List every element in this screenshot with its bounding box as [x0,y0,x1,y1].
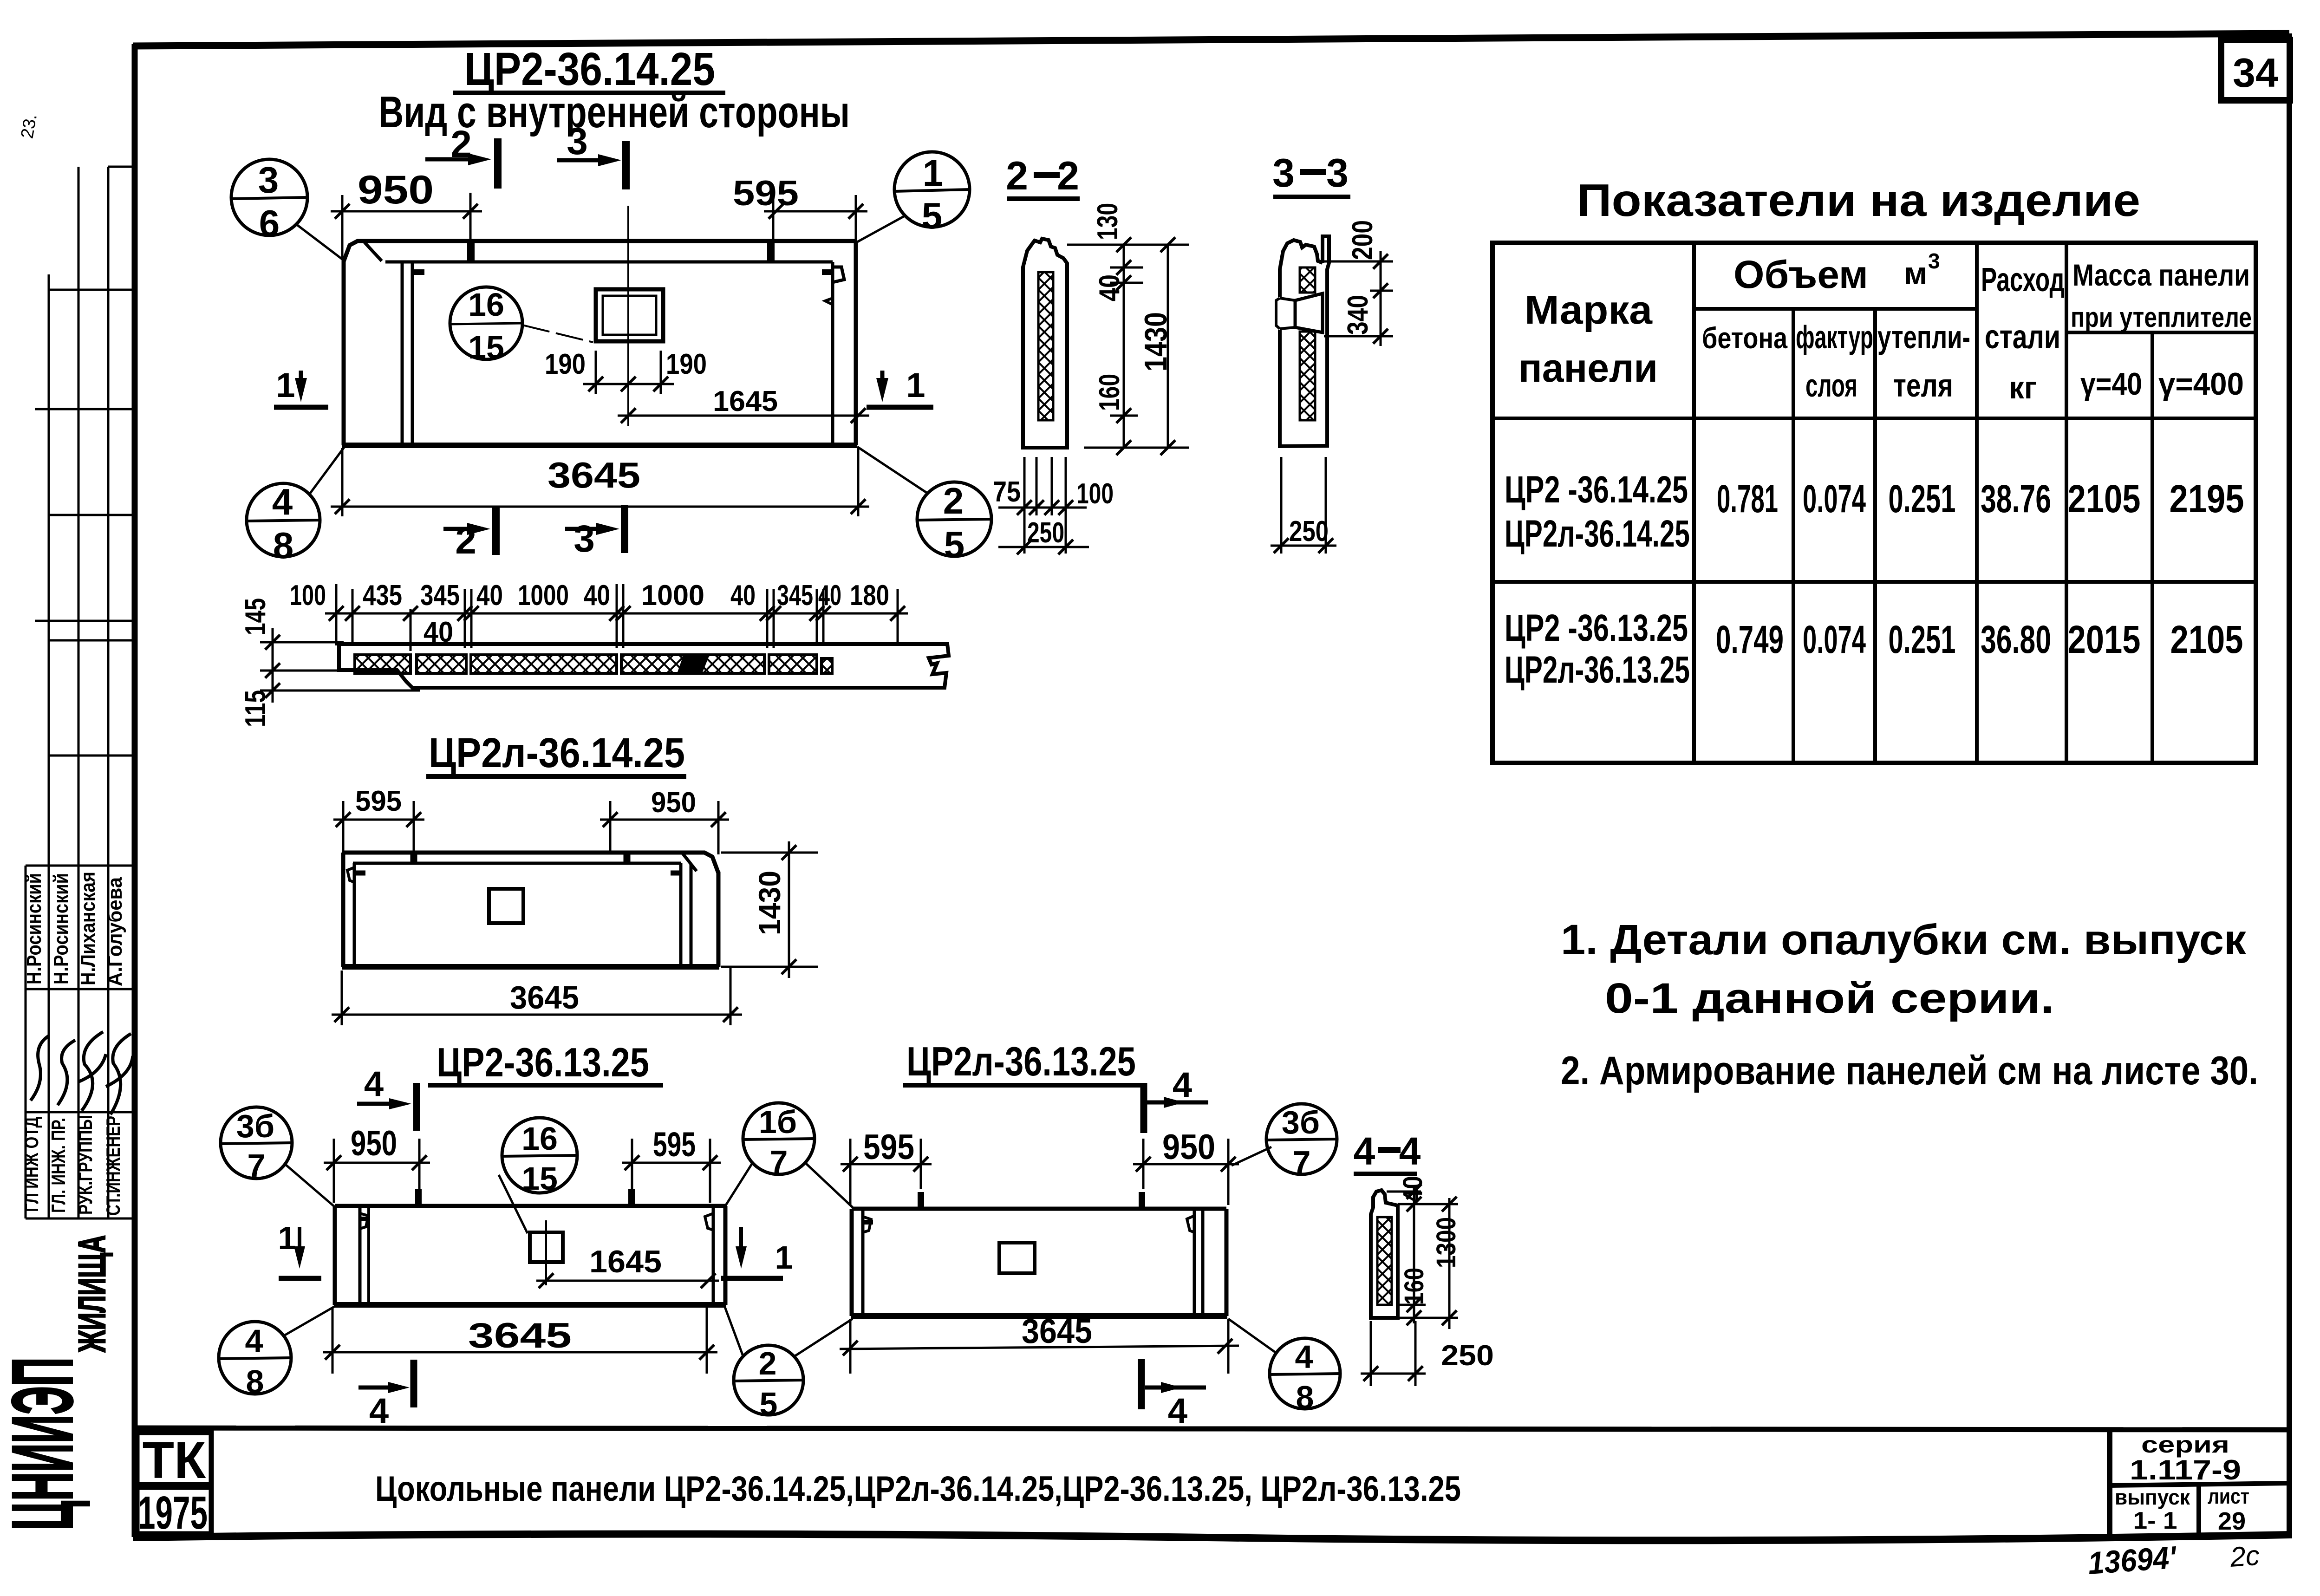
svg-text:3: 3 [567,120,588,163]
svg-text:3: 3 [1928,249,1940,273]
section cut mark 3 bottom [565,505,625,560]
svg-text:РУК.ГРУППЫ: РУК.ГРУППЫ [74,1115,96,1215]
section 2-2 profile [1023,239,1067,448]
svg-text:0.251: 0.251 [1889,477,1956,521]
svg-text:2. Армирование панелей см на л: 2. Армирование панелей см на листе 30. [1561,1049,2258,1093]
svg-text:7: 7 [1293,1144,1311,1180]
marker circle 2/5 bottom center [724,1306,853,1415]
svg-text:Марка: Марка [1525,288,1653,332]
panel3 section mark 1 left [278,1220,321,1278]
svg-text:ЦР2 -36.13.25: ЦР2 -36.13.25 [1505,607,1688,649]
svg-text:ЦР2-36.13.25: ЦР2-36.13.25 [437,1039,649,1085]
section 2-2 bottom dims [998,457,1089,554]
panel3 section mark 4 bottom [358,1360,414,1431]
panel3 opening [530,1232,563,1262]
section 3-3 title [1272,151,1350,197]
svg-text:1300: 1300 [1431,1217,1461,1268]
svg-text:1б: 1б [759,1104,797,1140]
svg-text:345: 345 [777,580,813,612]
panel2 opening [489,889,523,923]
table header uteplitela [1877,319,1970,404]
marker circle 16/15 [450,287,593,359]
section mark 1 left [274,366,328,407]
panel2 right end rib [671,863,691,965]
stamp signatures [31,1032,133,1114]
table header massa paneli [2071,258,2252,402]
marker circle 4/8 bottom left [219,1306,336,1394]
svg-text:3645: 3645 [510,979,579,1016]
svg-text:3б: 3б [1282,1104,1320,1140]
1975 box [137,1487,211,1539]
svg-text:180: 180 [850,580,889,612]
svg-text:160: 160 [1094,374,1126,411]
panel2 dim 595 [333,785,424,854]
panel4 dim 595 [841,1127,932,1205]
strip section dim texts [290,580,889,648]
section 4-4 insulation hatch [1377,1217,1392,1305]
svg-text:4: 4 [1168,1391,1187,1431]
svg-text:3: 3 [573,518,595,560]
section cut mark 4 top right [1144,1065,1208,1133]
svg-text:Объем: Объем [1733,253,1868,296]
left margin registration column lines [26,167,135,1218]
svg-text:Масса панели: Масса панели [2072,258,2250,292]
panel2 dim 3645 [332,968,742,1025]
svg-text:36.80: 36.80 [1981,618,2051,661]
svg-text:2105: 2105 [2170,618,2243,661]
title CP2-36.14.25 [453,43,725,95]
section 4-4 dim 250 [1361,1321,1494,1386]
panel3 dim 950 [324,1124,430,1203]
strip left dims 145 115 [240,598,272,727]
svg-text:ЖИЛИЩА: ЖИЛИЩА [71,1235,113,1353]
svg-text:СТ.ИНЖЕНЕР: СТ.ИНЖЕНЕР [102,1116,124,1216]
panel3 dim 1645 [536,1244,719,1288]
svg-text:4: 4 [1295,1339,1313,1375]
section cut mark 3 top [557,120,626,189]
table header marka paneli [1518,288,1658,391]
opening in panel [596,289,663,341]
svg-text:0.251: 0.251 [1889,618,1956,661]
panel3 left end rib [360,1206,370,1305]
svg-text:фактур: фактур [1796,319,1873,355]
svg-text:3645: 3645 [468,1316,572,1355]
section 3-3 bottom dim 250 [1271,457,1336,554]
svg-text:лист: лист [2208,1484,2249,1508]
section cut mark 2 bottom [443,507,496,562]
panel3 dim 595 [622,1125,721,1203]
section 2-2 dim texts rotated [1092,203,1173,411]
svg-text:2: 2 [943,480,964,521]
table header obem m3 [1733,249,1940,296]
sheet number box 34 [2221,40,2290,100]
marker circle 4/8 bottom right [1228,1319,1340,1409]
svg-text:1: 1 [775,1239,793,1276]
marker circle 16/15 bottom [499,1118,577,1233]
svg-text:250: 250 [1289,515,1329,547]
svg-text:при утеплителе: при утеплителе [2071,302,2252,333]
title CP2l-36.13.25 [903,1038,1141,1085]
svg-text:1: 1 [923,152,944,194]
svg-text:4: 4 [364,1064,384,1104]
svg-text:595: 595 [863,1127,914,1167]
section 3-3 profile [1276,236,1329,446]
svg-text:панели: панели [1518,346,1658,391]
svg-text:γ=400: γ=400 [2158,366,2244,402]
svg-text:0.074: 0.074 [1803,477,1866,521]
panel3 right end rib [705,1206,713,1305]
svg-text:1430: 1430 [1138,312,1173,371]
svg-text:100: 100 [1076,478,1114,510]
TK box [137,1431,211,1489]
svg-text:5: 5 [760,1386,778,1422]
panel2 dim 1430 [721,841,818,978]
panel4 opening [999,1243,1035,1273]
svg-text:340: 340 [1342,295,1374,335]
panel centerline [627,206,629,426]
svg-text:2с: 2с [2229,1540,2261,1573]
svg-text:250: 250 [1027,517,1064,549]
svg-text:130: 130 [1092,203,1124,240]
strip profile outline [339,644,949,688]
svg-text:Н.Росинский: Н.Росинский [23,873,46,984]
svg-text:950: 950 [1162,1127,1215,1167]
svg-text:0.749: 0.749 [1716,618,1784,661]
svg-text:200: 200 [1347,220,1379,260]
svg-text:3: 3 [1326,151,1349,195]
svg-text:теля: теля [1893,367,1953,404]
svg-text:1- 1: 1- 1 [2133,1507,2177,1534]
svg-text:4: 4 [369,1391,389,1431]
svg-text:ЦР2л-36.13.25: ЦР2л-36.13.25 [906,1038,1136,1084]
svg-text:38.76: 38.76 [1981,477,2051,521]
marker circle 2/5 [857,447,991,556]
svg-text:75: 75 [993,476,1021,508]
svg-text:бетона: бетона [1702,321,1787,355]
marker circle 1/5 [857,152,970,242]
marker circle 4/8 [247,447,345,557]
svg-text:34: 34 [2233,50,2278,96]
svg-text:145: 145 [240,598,272,635]
svg-text:250: 250 [1441,1340,1494,1372]
section 2-2 dim chain [1067,245,1189,448]
svg-text:Вид с внутренней стороны: Вид с внутренней стороны [378,87,850,137]
svg-text:190: 190 [666,348,707,380]
svg-text:Н.Лиханская: Н.Лиханская [77,872,99,985]
dim 3645 bottom panel1 [331,448,869,516]
svg-text:8: 8 [246,1363,264,1400]
svg-text:7: 7 [770,1144,788,1180]
svg-text:ЦР2 -36.14.25: ЦР2 -36.14.25 [1505,469,1688,511]
panel3 dim 3645 [323,1307,717,1374]
panel2 top band ticks [411,851,417,865]
svg-text:Цокольные панели ЦР2-36.14.25,: Цокольные панели ЦР2-36.14.25,ЦР2л-36.14… [375,1469,1461,1509]
top band joint ticks [467,240,475,263]
svg-text:2015: 2015 [2068,618,2141,661]
section 3-3 insulation hatch upper [1300,267,1315,293]
series stamp boxes [2110,1430,2289,1538]
svg-text:40: 40 [730,580,756,612]
svg-text:ЦР2л-36.14.25: ЦР2л-36.14.25 [429,730,685,776]
table header faktur sloya [1796,319,1873,404]
svg-text:Н.Росинский: Н.Росинский [50,873,72,984]
svg-text:595: 595 [653,1125,696,1164]
svg-text:2105: 2105 [2068,477,2141,521]
svg-text:1: 1 [278,1220,296,1256]
svg-text:1000: 1000 [641,580,704,612]
svg-text:1.117-9: 1.117-9 [2130,1454,2241,1485]
svg-text:4: 4 [1173,1065,1192,1105]
svg-text:5: 5 [922,195,943,236]
svg-text:Расход: Расход [1981,261,2065,299]
svg-text:1975: 1975 [138,1487,208,1539]
marker circle 3b/7 right [1232,1104,1337,1174]
svg-text:ГЛ ИНЖ ОТД: ГЛ ИНЖ ОТД [20,1117,42,1212]
svg-text:ГЛ. ИНЖ. ПР.: ГЛ. ИНЖ. ПР. [47,1118,69,1213]
section cut mark 4 top left [357,1064,417,1131]
table grid [1492,243,2256,763]
panel CP2-36.14.25 outline [342,241,857,445]
svg-text:Показатели на изделие: Показатели на изделие [1577,175,2140,226]
table row 2 mark [1505,607,1690,691]
section 3-3 dim chain [1324,251,1393,346]
svg-text:1: 1 [906,366,925,404]
strip black wedge [677,655,710,673]
svg-text:2: 2 [1006,154,1028,198]
svg-text:1645: 1645 [713,385,778,417]
stamp roles rotated text [20,1115,124,1216]
svg-text:1000: 1000 [518,580,569,612]
svg-text:ТК: ТК [143,1431,206,1489]
dim 190 190 [545,348,707,394]
svg-text:5: 5 [944,524,965,565]
svg-text:стали: стали [1985,319,2060,356]
table header rashod stali kg [1981,261,2065,405]
section mark 1 right [867,366,933,407]
svg-text:4: 4 [1399,1129,1421,1173]
svg-text:13694': 13694' [2087,1540,2178,1581]
svg-text:950: 950 [651,787,696,819]
svg-text:40: 40 [1094,274,1126,301]
panel4 dim 950 [1133,1127,1239,1205]
svg-text:слоя: слоя [1805,367,1857,404]
svg-text:6: 6 [259,202,280,244]
svg-text:кг: кг [2009,370,2037,405]
svg-text:595: 595 [355,785,402,817]
svg-text:950: 950 [351,1124,397,1163]
svg-text:40: 40 [476,580,503,612]
svg-text:4: 4 [272,481,293,522]
svg-text:3б: 3б [236,1108,274,1144]
panel3 loop ticks [415,1189,422,1207]
panel4 loop ticks [918,1192,924,1210]
svg-text:435: 435 [363,580,402,612]
panel4 right end rib [1187,1209,1203,1316]
panel4 section mark 4 bottom [1141,1359,1206,1431]
svg-text:190: 190 [545,348,586,380]
svg-text:утепли-: утепли- [1877,319,1970,355]
svg-text:γ=40: γ=40 [2080,366,2142,402]
section cut mark 2 top [425,123,498,189]
svg-text:выпуск: выпуск [2115,1485,2190,1509]
panel2 left end rib [347,863,365,967]
svg-text:0-1 данной серии.: 0-1 данной серии. [1605,975,2054,1022]
svg-text:серия: серия [2141,1432,2229,1458]
svg-text:15: 15 [521,1160,558,1197]
section 2-2 title [1006,154,1080,199]
panel2 outline [342,853,719,967]
panel3 outline [334,1206,726,1305]
svg-text:7: 7 [248,1147,266,1184]
svg-text:4: 4 [245,1323,263,1359]
section 4-4 profile [1371,1190,1398,1318]
svg-text:950: 950 [358,168,434,212]
svg-text:345: 345 [420,580,460,612]
svg-text:16: 16 [521,1120,558,1157]
table row 1 values [1717,477,2244,521]
svg-text:2: 2 [1057,154,1079,198]
panel2 dim 950 [600,787,729,854]
section 2-2 insulation hatch [1038,272,1053,420]
svg-text:3: 3 [1272,151,1295,195]
marker circle 3b/7 left [221,1107,335,1207]
svg-text:1. Детали опалубки см. выпу: 1. Детали опалубки см. выпуск [1561,916,2247,964]
strip section dim line [325,584,908,651]
svg-text:3: 3 [258,159,279,201]
svg-text:8: 8 [1296,1379,1314,1415]
dim 1645 [618,385,869,423]
svg-text:3645: 3645 [1022,1312,1092,1350]
svg-text:29: 29 [2218,1507,2246,1535]
marker circle 1b/7 center [724,1103,853,1207]
svg-text:А.Голубева: А.Голубева [104,877,126,986]
stamp names rotated text [23,872,126,986]
title CP2-36.13.25 [428,1039,663,1085]
svg-text:1645: 1645 [589,1244,662,1279]
svg-text:3645: 3645 [547,455,640,495]
svg-text:ЦНИИЭП: ЦНИИЭП [0,1357,91,1530]
svg-text:ЦР2л-36.13.25: ЦР2л-36.13.25 [1505,649,1690,691]
svg-text:ЦР2л-36.14.25: ЦР2л-36.14.25 [1505,513,1690,555]
svg-text:2: 2 [759,1345,777,1381]
panel4 dim 3645 [840,1312,1239,1374]
series text [2115,1432,2249,1535]
svg-text:0.074: 0.074 [1803,618,1866,661]
CNIIEP institute logo rotated [0,1235,113,1530]
table row 1 mark [1505,469,1690,555]
panel left end rib [402,262,424,444]
marker circle 3/6 [231,159,345,261]
svg-text:м: м [1904,256,1927,291]
svg-text:16: 16 [468,287,504,323]
svg-text:595: 595 [733,174,799,213]
section 4-4 dims [1398,1176,1461,1305]
svg-text:1430: 1430 [752,871,787,935]
svg-text:40: 40 [584,580,610,612]
svg-text:8: 8 [273,525,294,566]
svg-text:1: 1 [276,366,295,404]
panel3 opening centerline [545,1220,547,1285]
title block top line [135,1428,2289,1430]
dim 595 top [733,174,867,260]
panel3 section mark 1 right [721,1227,793,1278]
strip insulation blocks [355,655,832,673]
panel4 outline [851,1209,1227,1316]
section 3-3 insulation hatch lower [1300,332,1315,420]
table row 2 values [1716,618,2243,661]
svg-text:2195: 2195 [2170,477,2244,521]
section 4-4 title [1354,1129,1421,1174]
title CP2l-36.14.25 [426,730,686,776]
panel4 left end rib [863,1209,873,1316]
svg-text:0.781: 0.781 [1717,477,1778,521]
dim 950 top [331,168,482,260]
svg-text:15: 15 [468,329,504,365]
panel right end rib [822,262,844,445]
svg-text:100: 100 [290,580,326,612]
svg-text:4: 4 [1354,1129,1375,1173]
